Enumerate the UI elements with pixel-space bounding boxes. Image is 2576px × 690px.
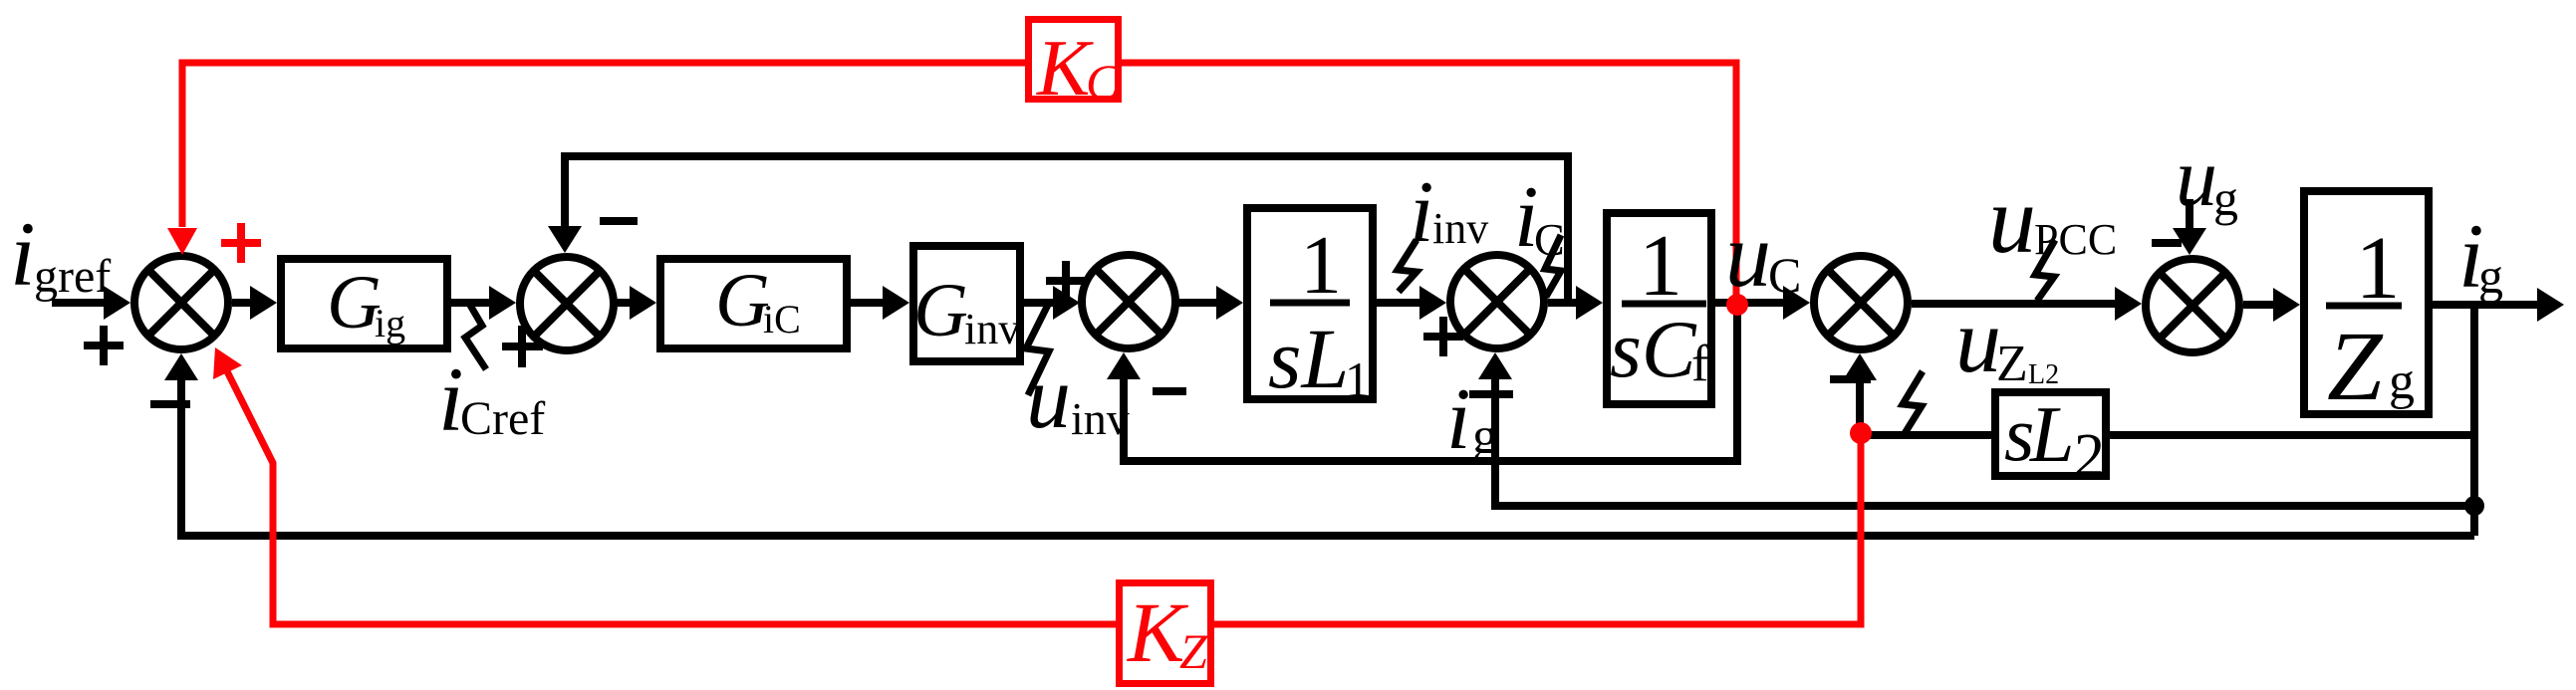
svg-text:G: G — [913, 269, 968, 352]
svg-text:G: G — [327, 261, 382, 345]
svg-text:C: C — [1768, 247, 1801, 303]
svg-text:g: g — [2389, 353, 2415, 410]
svg-text:Cref: Cref — [460, 392, 545, 445]
svg-text:i: i — [1446, 371, 1470, 468]
svg-text:f: f — [1691, 336, 1709, 392]
svg-text:L2: L2 — [2028, 359, 2059, 390]
svg-text:Z: Z — [2327, 311, 2384, 421]
svg-text:gref: gref — [34, 250, 111, 303]
svg-text:u: u — [2176, 131, 2217, 224]
svg-text:ig: ig — [375, 301, 405, 345]
svg-text:u: u — [1725, 204, 1771, 306]
svg-text:1: 1 — [1639, 218, 1682, 315]
svg-text:C: C — [1086, 54, 1120, 110]
svg-text:1: 1 — [2356, 219, 2401, 318]
svg-text:i: i — [1410, 164, 1433, 261]
svg-text:C: C — [1534, 214, 1565, 265]
svg-text:1: 1 — [1300, 219, 1342, 312]
svg-text:g: g — [2213, 170, 2238, 226]
svg-text:1: 1 — [1345, 351, 1370, 407]
svg-text:u: u — [1955, 290, 2001, 391]
svg-text:Z: Z — [1179, 623, 1208, 679]
svg-text:sC: sC — [1610, 304, 1697, 394]
svg-text:i: i — [10, 203, 36, 305]
svg-text:inv: inv — [1432, 204, 1488, 253]
svg-text:Z: Z — [1996, 336, 2028, 392]
svg-text:L: L — [2029, 391, 2075, 479]
svg-text:iC: iC — [763, 297, 801, 342]
svg-text:PCC: PCC — [2034, 215, 2117, 264]
svg-text:inv: inv — [964, 305, 1020, 353]
svg-text:u: u — [1988, 166, 2036, 273]
svg-text:sL: sL — [1268, 311, 1349, 406]
svg-text:2: 2 — [2074, 422, 2105, 490]
svg-text:G: G — [715, 259, 770, 343]
svg-text:g: g — [1472, 408, 1498, 465]
svg-text:inv: inv — [1071, 393, 1130, 444]
svg-text:u: u — [1026, 348, 1071, 447]
svg-text:g: g — [2478, 248, 2503, 304]
